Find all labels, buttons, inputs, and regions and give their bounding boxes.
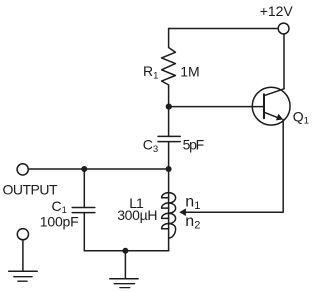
svg-text:n2: n2	[185, 213, 200, 232]
svg-text:Q1: Q1	[293, 108, 309, 126]
svg-text:100pF: 100pF	[40, 213, 79, 229]
svg-text:n1: n1	[185, 193, 200, 212]
svg-text:1M: 1M	[180, 63, 199, 79]
svg-text:+12V: +12V	[260, 3, 294, 19]
svg-text:5pF: 5pF	[183, 136, 204, 152]
svg-text:R1: R1	[143, 63, 158, 81]
svg-text:C3: C3	[143, 137, 158, 155]
svg-text:OUTPUT: OUTPUT	[3, 182, 59, 198]
svg-text:300µH: 300µH	[117, 207, 157, 223]
